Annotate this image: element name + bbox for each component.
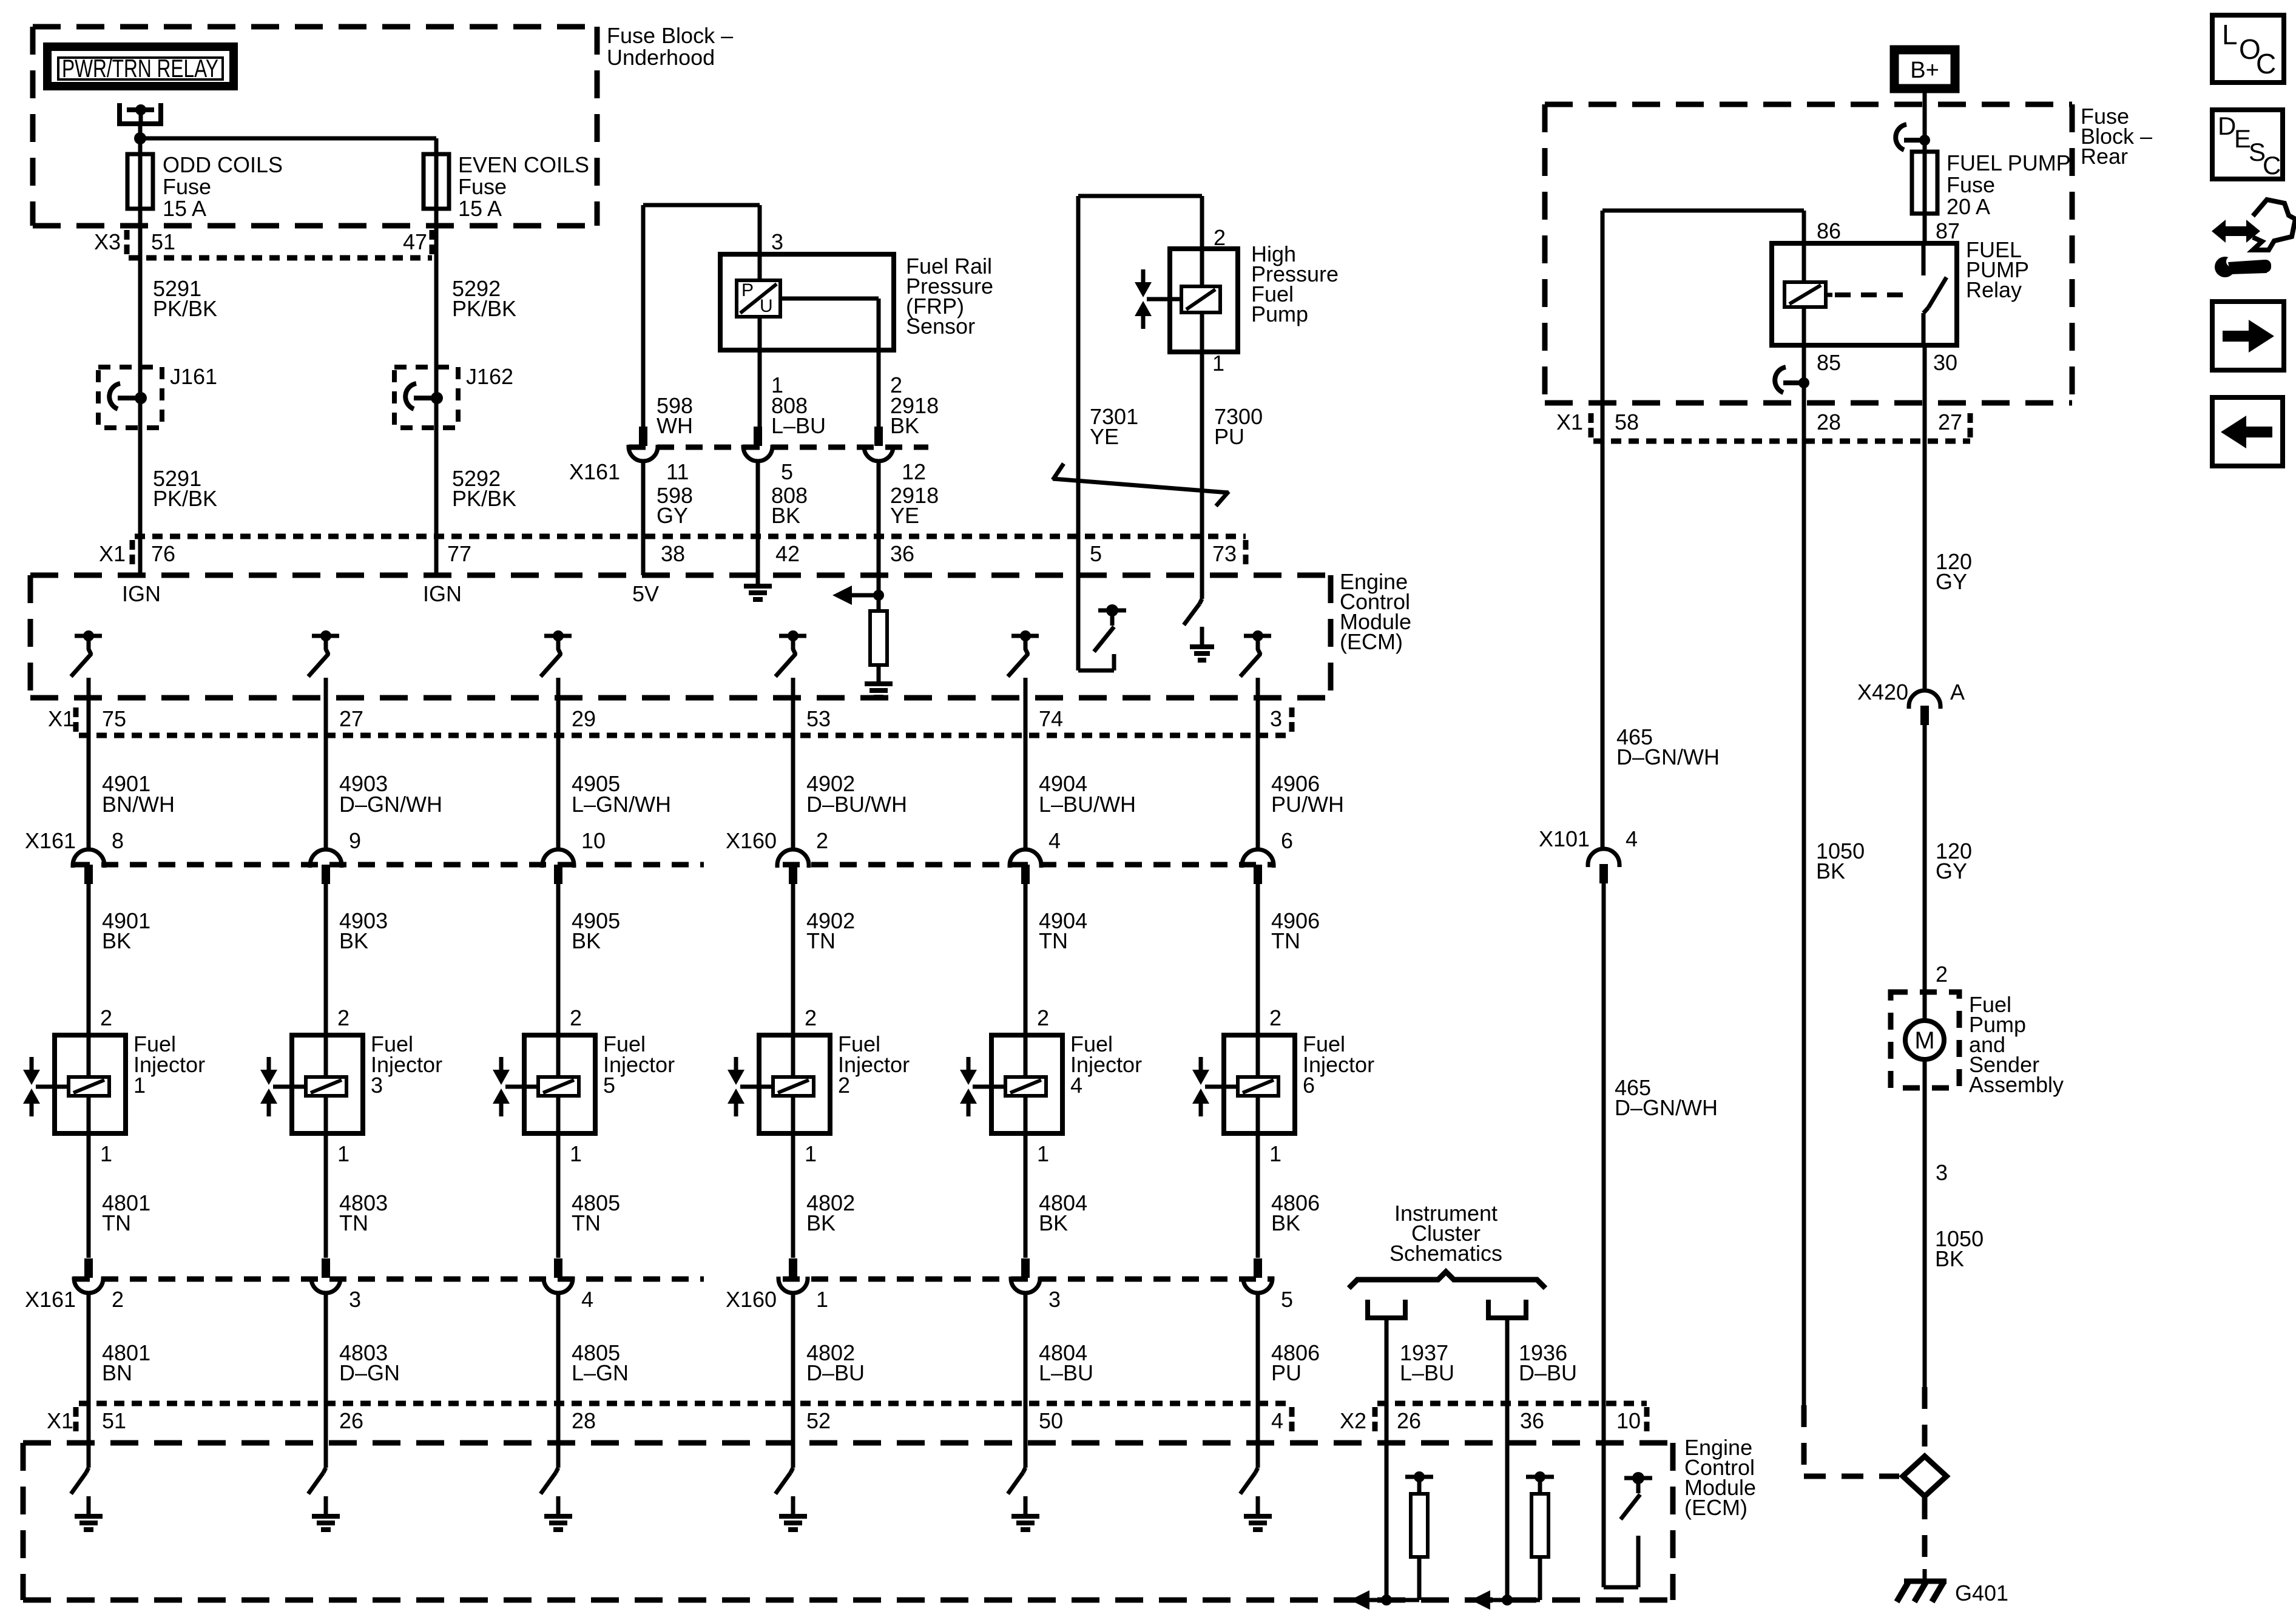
pin 76 label	[151, 541, 175, 566]
high pressure fuel pump box	[1170, 249, 1238, 352]
svg-text:2: 2	[1269, 1005, 1281, 1030]
svg-text:2: 2	[805, 1005, 817, 1030]
label IGN (odd)	[122, 581, 161, 606]
svg-text:2: 2	[1936, 962, 1948, 987]
svg-text:3: 3	[1270, 706, 1282, 731]
arrow to other circuits x2484	[1471, 1590, 1540, 1610]
pin 51 label	[151, 229, 175, 254]
connector X101 label	[1539, 826, 1590, 851]
label 4804 L–BU	[1039, 1340, 1093, 1385]
label 465 D-GN/WH lower	[1615, 1075, 1718, 1120]
off-page connector to cluster (1937)	[1365, 1300, 1408, 1403]
pin 26 label (X2)	[1397, 1408, 1421, 1433]
ECM injector driver switch 4	[775, 630, 806, 677]
svg-text:51: 51	[151, 229, 175, 254]
label 4901 BN/WH	[102, 771, 175, 817]
wire driver 6 to X1 pin 3	[1256, 678, 1260, 850]
svg-text:PU: PU	[1214, 424, 1244, 449]
pin 2 label injector 3	[337, 1005, 349, 1030]
label 5292 PK/BK lower	[452, 466, 516, 511]
svg-text:B+: B+	[1910, 58, 1939, 83]
svg-text:47: 47	[403, 229, 427, 254]
svg-text:Pump: Pump	[1251, 302, 1308, 326]
wire 4903 BK to injector	[324, 884, 328, 1035]
pin 2 label injector 4	[1037, 1005, 1049, 1030]
svg-text:L–GN: L–GN	[572, 1360, 629, 1385]
pin 10 label (X2)	[1616, 1407, 1647, 1433]
svg-text:10: 10	[581, 828, 606, 853]
svg-text:Rear: Rear	[2081, 144, 2128, 169]
connector pin 8 (injector feed)	[73, 849, 104, 884]
label Fuel Injector 4	[1070, 1031, 1142, 1098]
dashed run diamond to G401	[1922, 1497, 1928, 1569]
wire junction to EVEN COILS fuse	[140, 138, 436, 154]
label 598 WH	[657, 393, 693, 438]
svg-text:9: 9	[349, 828, 361, 853]
ECM ground switch for pin 51	[71, 1443, 103, 1530]
wire 5291 PK/BK upper segment	[138, 285, 143, 367]
dashed ground run from pin 28	[1804, 1405, 1899, 1476]
pin 28 label (ECM lower)	[572, 1408, 596, 1433]
off-page connector to cluster (1936)	[1486, 1300, 1528, 1403]
label 4805 TN	[572, 1190, 620, 1235]
connector pin 3 (injector return)	[1011, 1258, 1040, 1293]
wire relay 85 down	[1802, 345, 1806, 441]
svg-text:27: 27	[339, 706, 363, 731]
wire 808 L-BU segment	[758, 350, 762, 427]
pin 3 label (fuel pump)	[1936, 1160, 1948, 1185]
ECM injector driver switch 1	[71, 630, 102, 677]
connector pin 6 (injector feed)	[1242, 849, 1274, 884]
svg-text:TN: TN	[1271, 928, 1300, 953]
relay switch contact	[1923, 243, 1947, 345]
svg-text:5V: 5V	[632, 581, 659, 606]
pin 36 label	[890, 541, 914, 566]
svg-text:L–BU: L–BU	[1400, 1360, 1454, 1385]
svg-text:BK: BK	[771, 503, 800, 528]
wire 598 GY	[641, 461, 646, 575]
svg-text:BK: BK	[572, 928, 601, 953]
fuel injector 3 valve symbol	[260, 1057, 306, 1116]
ECM pull-up bar node at x2339	[1405, 1471, 1433, 1482]
svg-text:GY: GY	[657, 503, 688, 528]
svg-text:2: 2	[112, 1287, 124, 1312]
connector X161 row line (pins 8/9/10)	[73, 862, 704, 868]
connector pin 10 (injector feed)	[542, 849, 574, 884]
fuel injector 6 valve symbol	[1192, 1057, 1238, 1116]
svg-text:A: A	[1950, 680, 1965, 704]
svg-text:42: 42	[775, 541, 800, 566]
pin 4 label (X101)	[1626, 826, 1638, 851]
ECM pull-up bar node at x2538	[1526, 1471, 1554, 1482]
FRP sensor box	[720, 254, 894, 350]
pin 2 label HP pump	[1214, 225, 1226, 250]
svg-text:GY: GY	[1936, 859, 1967, 883]
svg-text:12: 12	[902, 459, 926, 484]
wire 5292 PK/BK upper segment	[434, 285, 439, 367]
fuse clip at B+	[1896, 124, 1930, 150]
connector pin 3 (injector return)	[311, 1258, 340, 1293]
svg-text:FUEL PUMP: FUEL PUMP	[1947, 150, 2071, 175]
connector pin 4 (injector return)	[544, 1258, 573, 1293]
wire 4902 TN to injector	[791, 884, 795, 1035]
label 4902 TN	[806, 908, 855, 953]
arrow to other circuits from pin36	[832, 586, 879, 605]
label 4904 L–BU/WH	[1039, 771, 1136, 817]
wire 4904 TN to injector	[1024, 884, 1028, 1035]
connector X161 label (row 3)	[25, 1287, 76, 1312]
wire 5291 PK/BK lower segment	[138, 428, 143, 575]
pin 38 label	[661, 541, 685, 566]
wire 1050 BK below pump	[1923, 1088, 1927, 1387]
svg-text:BK: BK	[339, 928, 368, 953]
svg-text:1: 1	[100, 1141, 112, 1166]
label 4906 PU/WH	[1271, 771, 1344, 817]
label B+	[1910, 58, 1939, 83]
svg-text:J161: J161	[170, 364, 217, 389]
svg-text:GY: GY	[1936, 569, 1967, 594]
pin 2 label injector 2	[805, 1005, 817, 1030]
connector pin 9 (injector feed)	[310, 849, 342, 884]
svg-text:IGN: IGN	[423, 581, 462, 606]
connector X161 pin 5	[743, 427, 772, 461]
wire 2918 YE	[877, 461, 881, 611]
pin 9 label (row2)	[349, 828, 361, 853]
wire cluster signal through ECM x2484	[1502, 1403, 1513, 1605]
svg-text:50: 50	[1039, 1408, 1063, 1433]
label 808 BK	[771, 483, 808, 528]
pin 77 label	[447, 541, 471, 566]
connector X161 row line (pins 2/3/4)	[73, 1277, 704, 1282]
svg-text:10: 10	[1616, 1408, 1641, 1433]
svg-text:D–GN/WH: D–GN/WH	[1616, 744, 1720, 769]
pin 3 label FRP	[771, 229, 783, 254]
ground at ECM pin 42	[744, 586, 772, 599]
ECM ground switch for pin 4	[1240, 1443, 1272, 1530]
svg-text:73: 73	[1212, 541, 1237, 566]
icon DESC box	[2212, 110, 2283, 180]
label G401	[1955, 1581, 2008, 1605]
connector X161 row line (pins 11/5/12)	[629, 445, 928, 450]
label J161	[170, 364, 217, 389]
pin 1 label injector 1	[100, 1141, 112, 1166]
label Fuel Injector 2	[838, 1031, 910, 1098]
ECM injector driver switch 6	[1240, 630, 1271, 677]
label 1936 D-BU	[1519, 1340, 1577, 1385]
label ODD COILS Fuse 15 A	[163, 152, 283, 221]
label 4906 TN	[1271, 908, 1320, 953]
pin 3 label (row3)	[1048, 1287, 1061, 1312]
label 4902 D–BU/WH	[806, 771, 907, 817]
svg-text:15 A: 15 A	[163, 196, 206, 221]
fuse ODD COILS 15A	[127, 138, 153, 209]
wire 4806 PU to ECM	[1256, 1292, 1260, 1443]
fuel injector 2 solenoid	[773, 1035, 814, 1133]
svg-text:PK/BK: PK/BK	[153, 486, 217, 511]
svg-text:L–BU/WH: L–BU/WH	[1039, 792, 1136, 817]
svg-text:3: 3	[1936, 1160, 1948, 1185]
pin 30 label	[1933, 350, 1957, 375]
fuel injector 2 box	[759, 1035, 830, 1133]
svg-text:BK: BK	[806, 1210, 836, 1235]
pin 4 label (ECM lower)	[1271, 1408, 1283, 1433]
pin 1 label HP pump	[1212, 351, 1224, 376]
svg-text:6: 6	[1303, 1073, 1315, 1098]
svg-text:11: 11	[666, 459, 689, 484]
pin 2 label (fuel pump)	[1936, 962, 1948, 987]
wire relay 30 down	[1923, 345, 1927, 441]
label 7301 YE	[1090, 404, 1138, 449]
svg-text:YE: YE	[1090, 424, 1119, 449]
wire HP pump pin1 drop	[1200, 352, 1204, 599]
connector pin 2 (injector return)	[74, 1258, 103, 1293]
ground below pin36 resistor	[865, 665, 893, 697]
svg-text:PK/BK: PK/BK	[452, 486, 516, 511]
svg-text:D–GN: D–GN	[339, 1360, 400, 1385]
svg-text:G401: G401	[1955, 1581, 2008, 1605]
pin 1 label injector 4	[1037, 1141, 1049, 1166]
svg-text:85: 85	[1817, 350, 1841, 375]
label 2918 BK	[890, 393, 939, 438]
svg-text:BK: BK	[1039, 1210, 1068, 1235]
label 7300 PU	[1214, 404, 1263, 449]
svg-text:4: 4	[1626, 826, 1638, 851]
svg-text:2: 2	[816, 828, 828, 853]
svg-text:74: 74	[1039, 706, 1063, 731]
pin 75 label	[102, 706, 126, 731]
ECM injector driver switch 2	[308, 630, 339, 677]
fuel injector 6 box	[1224, 1035, 1295, 1133]
fuel injector 3 solenoid	[306, 1035, 346, 1133]
wire 4802 D–BU to ECM	[791, 1292, 795, 1443]
connector X160 row line (pins 1/3/5)	[783, 1277, 1274, 1282]
engine control module (ECM) upper dashed box	[30, 575, 1331, 698]
connector X160 label (row 3)	[726, 1287, 777, 1312]
ECM ground switch for pin 50	[1008, 1443, 1039, 1530]
svg-text:BK: BK	[1935, 1246, 1964, 1271]
pin 52 label (ECM lower)	[806, 1408, 831, 1433]
pin 10 label (row2)	[581, 828, 606, 853]
HP pump solenoid	[1181, 249, 1220, 352]
tick after pin 4	[1289, 1407, 1295, 1431]
fuse block - underhood dashed box	[33, 27, 597, 226]
pin 5 label (row3)	[1281, 1287, 1293, 1312]
connector X1 label (ECM top)	[99, 540, 132, 566]
pin 2 label (row2)	[816, 828, 828, 853]
svg-text:77: 77	[447, 541, 471, 566]
svg-text:(ECM): (ECM)	[1684, 1495, 1747, 1520]
svg-text:(ECM): (ECM)	[1340, 629, 1403, 654]
svg-text:4: 4	[1070, 1073, 1082, 1098]
fuse FUEL PUMP 20A	[1912, 152, 1937, 214]
pin 6 label (row2)	[1281, 828, 1293, 853]
connector pin 1 (injector return)	[778, 1258, 808, 1293]
svg-text:Assembly: Assembly	[1969, 1072, 2064, 1097]
splice J162	[394, 367, 458, 428]
connector X1 label (rear)	[1556, 410, 1591, 437]
wire relay 86 feed	[1602, 211, 1804, 243]
svg-text:Fuse Block –: Fuse Block –	[607, 23, 733, 48]
icon back arrow box	[2212, 397, 2283, 466]
svg-text:3: 3	[771, 229, 783, 254]
svg-text:J162: J162	[466, 364, 513, 389]
svg-text:X420: X420	[1857, 680, 1908, 704]
svg-text:38: 38	[661, 541, 685, 566]
label FUEL PUMP Fuse 20 A	[1947, 150, 2071, 219]
wire FRP pin3 drop	[758, 205, 762, 254]
pin 47 label	[403, 229, 432, 254]
connector X161 label	[569, 459, 620, 484]
connector X1 label (ECM lower)	[47, 1407, 76, 1433]
label 4904 TN	[1039, 908, 1087, 953]
wire 808 BK	[756, 461, 760, 584]
svg-text:27: 27	[1938, 410, 1962, 434]
wire 120 GY from pin 27	[1923, 441, 1927, 690]
arrow to other circuits x2285	[1350, 1590, 1419, 1610]
wire 1050 BK from pin 28	[1802, 441, 1806, 1405]
svg-text:C: C	[2263, 151, 2281, 180]
svg-text:3: 3	[349, 1287, 361, 1312]
svg-text:PK/BK: PK/BK	[452, 296, 516, 321]
svg-text:X1: X1	[1556, 410, 1583, 434]
pin 1 label FRP	[771, 373, 783, 397]
fuel injector 5 solenoid	[538, 1035, 579, 1133]
wire driver 3 to X1 pin 29	[556, 678, 561, 850]
wire 4805 TN from injector	[556, 1133, 561, 1258]
wire 120 GY lower	[1923, 725, 1927, 992]
svg-text:C: C	[2256, 48, 2276, 79]
wire 4806 BK from injector	[1256, 1133, 1260, 1258]
svg-text:TN: TN	[102, 1210, 131, 1235]
svg-text:X3: X3	[94, 229, 121, 254]
pin 3 label	[1270, 706, 1282, 731]
label PWR/TRN RELAY	[62, 54, 218, 83]
label 5292 PK/BK	[452, 276, 516, 321]
svg-text:Schematics: Schematics	[1389, 1241, 1502, 1266]
label 1937 L-BU	[1400, 1340, 1454, 1385]
svg-text:4: 4	[581, 1287, 593, 1312]
label Fuse Block - Underhood	[607, 23, 733, 70]
connector X101 pin 4	[1588, 849, 1619, 883]
engine control module (ECM) lower dashed box	[23, 1443, 1673, 1600]
ECM switch for pin 10	[1621, 1472, 1652, 1519]
pin 2 label (row3)	[112, 1287, 124, 1312]
svg-text:4: 4	[1271, 1408, 1283, 1433]
label Fuel Injector 3	[371, 1031, 442, 1098]
wire 465 D-GN/WH upper	[1601, 441, 1605, 848]
svg-text:Underhood: Underhood	[607, 45, 715, 70]
svg-text:1: 1	[1269, 1141, 1281, 1166]
connector X2 label	[1340, 1407, 1375, 1433]
FRP P/U transducer symbol	[737, 254, 780, 350]
fuse block - rear dashed box	[1545, 104, 2072, 403]
svg-text:58: 58	[1615, 410, 1639, 434]
pin 36 label (X2)	[1520, 1408, 1544, 1433]
pin 87 label	[1936, 218, 1960, 243]
pin 27 label	[339, 706, 363, 731]
label 4804 BK	[1039, 1190, 1087, 1235]
svg-text:D–BU: D–BU	[1519, 1360, 1577, 1385]
label FUEL PUMP Relay	[1966, 237, 2029, 302]
svg-text:X160: X160	[726, 828, 777, 853]
svg-text:76: 76	[151, 541, 175, 566]
pin 50 label (ECM lower)	[1039, 1408, 1063, 1433]
wire driver 5 to X1 pin 74	[1024, 678, 1028, 850]
pin 53 label	[806, 706, 831, 731]
pin 28 label	[1817, 410, 1841, 434]
svg-text:4: 4	[1048, 828, 1061, 853]
svg-text:2: 2	[570, 1005, 582, 1030]
fuel injector 5 box	[524, 1035, 595, 1133]
svg-text:EVEN COILS: EVEN COILS	[458, 152, 589, 177]
label 2918 YE	[890, 483, 939, 528]
svg-text:P: P	[741, 280, 754, 300]
svg-text:5: 5	[1090, 541, 1102, 566]
svg-text:M: M	[1914, 1027, 1934, 1054]
wire 598 WH segment	[643, 205, 644, 427]
svg-text:26: 26	[1397, 1408, 1421, 1433]
svg-text:D–GN/WH: D–GN/WH	[339, 792, 442, 817]
svg-text:1: 1	[805, 1141, 817, 1166]
svg-text:53: 53	[806, 706, 831, 731]
splice J161	[98, 367, 162, 428]
svg-text:8: 8	[112, 828, 124, 853]
wire 4801 BN to ECM	[87, 1292, 91, 1443]
svg-text:1: 1	[133, 1073, 146, 1098]
pin 42 label	[775, 541, 800, 566]
resistor in ECM branch x2339	[1411, 1477, 1428, 1600]
svg-text:TN: TN	[572, 1210, 601, 1235]
fuel injector 2 valve symbol	[728, 1057, 773, 1116]
wire cluster signal through ECM x2285	[1381, 1403, 1392, 1605]
svg-text:U: U	[760, 296, 773, 316]
connector X420 label	[1857, 680, 1908, 704]
label 465 D-GN/WH upper	[1616, 724, 1720, 769]
pin 1 label (row3)	[816, 1287, 828, 1312]
ECM ground switch for pin 52	[775, 1443, 807, 1530]
svg-text:2: 2	[838, 1073, 850, 1098]
pin 51 label (ECM lower)	[102, 1408, 126, 1433]
fuse EVEN COILS 15A	[424, 154, 449, 209]
icon LOC box	[2212, 15, 2284, 83]
mechanical link arrow across pump wires	[1053, 464, 1229, 506]
label EVEN COILS Fuse 15 A	[458, 152, 589, 221]
pin A label (X420)	[1950, 680, 1965, 704]
pin 29 label	[572, 706, 596, 731]
fuel injector 1 valve symbol	[23, 1057, 69, 1116]
label 4803 D–GN	[339, 1340, 400, 1385]
label 120 GY lower	[1936, 839, 1972, 883]
svg-text:YE: YE	[890, 503, 919, 528]
fuel injector 5 valve symbol	[493, 1057, 538, 1116]
svg-text:Sensor: Sensor	[906, 314, 975, 339]
svg-text:86: 86	[1817, 218, 1841, 243]
fuel pump and sender assembly dashed box	[1891, 992, 1959, 1088]
svg-text:BN/WH: BN/WH	[102, 792, 175, 817]
svg-text:5: 5	[1281, 1287, 1293, 1312]
svg-text:1: 1	[570, 1141, 582, 1166]
svg-text:BK: BK	[1271, 1210, 1300, 1235]
pin 11 label	[666, 459, 689, 484]
label 5291 PK/BK lower	[153, 466, 217, 511]
fuel injector 1 box	[55, 1035, 126, 1133]
ECM injector driver switch 5	[1008, 630, 1039, 677]
wire 4803 D–GN to ECM	[324, 1292, 328, 1443]
node pin36 pullup junction	[873, 590, 884, 601]
svg-text:20 A: 20 A	[1947, 194, 1990, 219]
svg-text:D: D	[2218, 112, 2236, 140]
pin 2 label injector 1	[100, 1005, 112, 1030]
